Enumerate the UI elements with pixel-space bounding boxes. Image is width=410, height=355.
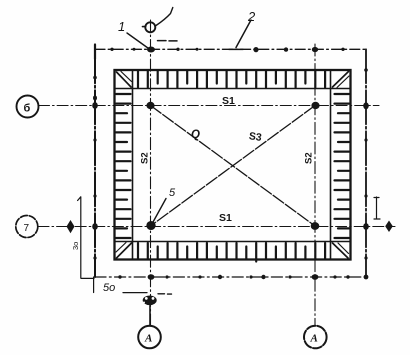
section cut mark right (filled diamond)	[385, 221, 393, 233]
boundary dots right	[363, 68, 369, 259]
node bottom-left	[147, 222, 155, 230]
corner brace top-right	[333, 72, 349, 88]
svg-text:1: 1	[118, 19, 125, 34]
node top-right	[312, 102, 319, 108]
wall outer edge rectangle	[115, 70, 351, 260]
wall hatch ticks bottom band	[138, 243, 325, 262]
axis bubble A2 (bottom right)	[304, 326, 327, 349]
boundary line top (dash-dot excavation boundary)	[95, 48, 366, 50]
axis bubble lower-left	[16, 216, 38, 238]
dimension line 50 (L-shape under bottom-left)	[123, 292, 147, 294]
svg-text:3o: 3o	[71, 242, 80, 250]
axis bubble B (left top)	[17, 96, 39, 118]
svg-text:S3: S3	[248, 130, 263, 144]
axis line vertical A2 (x=315)	[314, 44, 316, 326]
axis line horizontal lower (y=226.5)	[38, 226, 395, 228]
short dashed mark right of top anchor	[158, 40, 178, 42]
boundary corner tick bottom-left	[93, 277, 95, 293]
wall inner edge vertical right	[330, 70, 332, 260]
curved leader from top anchor	[156, 8, 173, 26]
anchor symbol bottom (filled)	[143, 296, 157, 306]
axis line vertical A (x=150.5)	[150, 20, 152, 326]
anchor symbol top (circle with axis through)	[145, 22, 155, 32]
section cut mark left (filled diamond)	[67, 220, 75, 233]
svg-text:A: A	[144, 333, 152, 345]
boundary dots bottom	[118, 274, 368, 280]
section line I right	[374, 197, 380, 219]
boundary line bottom	[95, 276, 366, 278]
axis bubble A (bottom left)	[138, 326, 161, 349]
wall inner edge horizontal top	[115, 88, 351, 90]
boundary dots top	[110, 47, 344, 53]
section line I left	[78, 197, 94, 279]
node bottom-right	[311, 223, 319, 230]
svg-text:Q: Q	[191, 129, 200, 141]
wall hatch ticks top band	[138, 71, 325, 88]
wall inner edge horizontal bottom	[115, 241, 351, 243]
svg-text:5: 5	[169, 187, 176, 199]
axis stub to circle A	[149, 306, 151, 327]
leader line for label 2	[229, 20, 251, 49]
boundary line right	[365, 49, 367, 277]
boundary corner tick top-left	[94, 45, 96, 60]
leader line for label 5	[153, 199, 167, 224]
boundary line left	[94, 49, 96, 277]
wall hatch ticks right band	[335, 94, 350, 238]
strut diagonal brace Q (node TL to node BR)	[151, 106, 316, 227]
boundary dots left	[92, 76, 98, 260]
corner brace top-left	[117, 72, 132, 87]
wall hatch ticks left band	[116, 94, 131, 238]
svg-text:2: 2	[247, 9, 256, 24]
corner brace bottom-left	[117, 243, 132, 258]
corner brace bottom-right	[333, 243, 349, 258]
strut diagonal brace S3 (node TR to node BL)	[151, 106, 316, 227]
svg-text:S2: S2	[140, 152, 151, 164]
node top-left	[147, 102, 154, 108]
svg-text:7: 7	[24, 223, 30, 234]
leader line for label 1	[127, 33, 150, 50]
short dashes right of bottom anchor	[158, 293, 172, 295]
svg-text:S2: S2	[304, 152, 315, 164]
svg-text:S1: S1	[219, 212, 232, 224]
svg-text:б: б	[24, 103, 31, 115]
wall inner edge vertical left	[132, 70, 134, 260]
axis line horizontal B (y=105.5)	[39, 105, 380, 107]
svg-text:5o: 5o	[103, 282, 115, 294]
svg-text:A: A	[310, 333, 318, 345]
svg-text:S1: S1	[222, 95, 235, 107]
